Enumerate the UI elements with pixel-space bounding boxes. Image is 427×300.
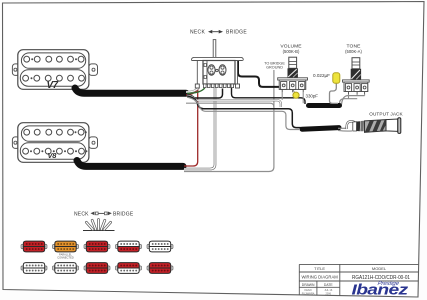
svg-text:2006: 2006 xyxy=(326,292,332,295)
svg-text:V8: V8 xyxy=(48,151,58,160)
svg-text:DATE: DATE xyxy=(324,283,334,287)
svg-text:MODEL: MODEL xyxy=(372,266,387,271)
svg-text:GROUND: GROUND xyxy=(266,66,283,70)
svg-text:0.022µF: 0.022µF xyxy=(313,73,330,78)
svg-text:NECK: NECK xyxy=(190,30,205,36)
svg-text:NECK: NECK xyxy=(74,212,89,218)
svg-text:(500K-A): (500K-A) xyxy=(345,49,362,54)
svg-text:FUJIWARA: FUJIWARA xyxy=(302,292,315,295)
svg-text:RGA121H-CDO/CDR-00-01: RGA121H-CDO/CDR-00-01 xyxy=(352,275,410,281)
svg-text:(500K-B): (500K-B) xyxy=(283,49,300,54)
svg-text:CONNECTED: CONNECTED xyxy=(57,256,74,260)
svg-text:Prestige: Prestige xyxy=(377,281,400,287)
svg-text:BRIDGE: BRIDGE xyxy=(226,30,247,36)
svg-text:OUTPUT JACK: OUTPUT JACK xyxy=(369,112,403,117)
svg-text:TITLE: TITLE xyxy=(314,266,325,271)
svg-text:BRIDGE: BRIDGE xyxy=(113,212,134,218)
svg-text:330pF: 330pF xyxy=(306,94,319,99)
svg-text:WIRING DIAGRAM: WIRING DIAGRAM xyxy=(301,274,338,279)
svg-text:V7: V7 xyxy=(47,80,59,91)
svg-text:DRAWN: DRAWN xyxy=(302,283,315,287)
